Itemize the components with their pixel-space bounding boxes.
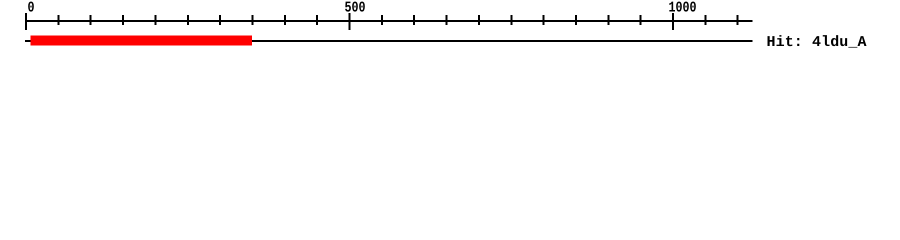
minor tick [543,15,545,25]
minor tick [154,15,156,25]
major tick 500 [349,13,351,30]
background [0,0,900,60]
svg-text:500: 500 [345,0,366,17]
minor tick [57,15,59,25]
major tick 0 [25,13,27,30]
svg-text:0: 0 [28,0,35,17]
minor tick [219,15,221,25]
minor tick [510,15,512,25]
hit alignment red bar [31,36,253,46]
minor tick [122,15,124,25]
minor tick [640,15,642,25]
minor tick [575,15,577,25]
svg-text:1000: 1000 [669,0,697,17]
minor tick [446,15,448,25]
minor tick [413,15,415,25]
minor tick [251,15,253,25]
minor tick [90,15,92,25]
minor tick [187,15,189,25]
svg-text:Hit: 4ldu_A: Hit: 4ldu_A [767,34,867,51]
minor tick [284,15,286,25]
ruler axis line [25,20,753,22]
minor tick [381,15,383,25]
minor tick [737,15,739,25]
minor tick [704,15,706,25]
minor tick [607,15,609,25]
query/hit baseline wire [25,40,753,42]
minor tick [478,15,480,25]
minor tick [316,15,318,25]
major tick 1000 [672,13,674,30]
